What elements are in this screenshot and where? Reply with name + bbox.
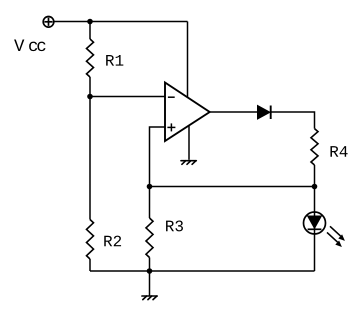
junction dot node A [87,94,93,100]
junction dot node B [147,184,153,190]
label R1 [106,55,123,66]
ground (bottom rail) [142,296,157,300]
wire op-amp V+ supply drop [187,22,189,98]
resistor R3 [146,218,153,258]
wire R1 bottom to node A [89,77,91,97]
junction dot top rail [87,19,93,25]
wire ground stub at bottom rail [149,271,151,296]
junction dot node C [312,184,318,190]
resistor R1 [87,39,94,77]
LED light arrow 2 [327,232,342,247]
wire R2 bottom to ground rail [89,259,91,271]
wire node B to R3 top [149,187,151,219]
wire node A down to R2 [89,97,91,220]
wire R3 bottom to bottom rail [149,258,151,272]
diode D1 [258,106,271,120]
wire top rail Vcc to op-amp supply corner [54,21,187,23]
wire node A to op-amp inverting input [90,96,165,98]
label R2 [104,236,121,247]
op-amp U1 [165,83,210,142]
Vcc terminal [43,17,54,28]
wire op-amp V- supply to ground [188,125,190,160]
label R3 [166,220,183,231]
wire mid rail node B to node C [150,186,315,188]
LED light arrow 1 [330,226,345,241]
wire bottom ground rail [90,270,315,272]
resistor R4 [311,129,318,165]
wire op-amp non-inverting input to node B [150,127,166,187]
label R4 [330,146,347,157]
wire diode cathode to corner [271,112,315,129]
wire R1 top [89,22,91,40]
ground (op-amp supply) [181,161,196,165]
resistor R2 [87,220,94,260]
op-amp inverting input symbol [168,96,175,98]
junction dot bottom rail ground [147,268,153,274]
LED D2 [304,212,326,234]
wire node C to LED and bottom rail [314,187,316,272]
wire R4 bottom to node C [314,165,316,187]
wire op-amp output to diode [210,111,258,113]
op-amp non-inverting input symbol [167,123,175,131]
label V cc [14,40,45,52]
